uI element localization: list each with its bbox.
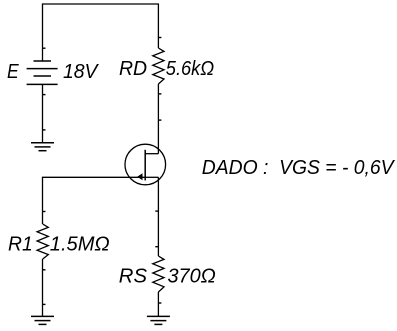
pin end tick (RS bottom / ground 3) [159,302,162,303]
svg-text:RD: RD [119,57,147,80]
pin end tick (ground 2 top) [43,304,46,305]
wire JFET source to RS [157,177,159,256]
label R1 [8,233,33,256]
wire gate to R1 [43,177,146,224]
svg-text:R1: R1 [8,233,33,256]
wire RS to ground [157,292,159,316]
ground (R1) [31,316,54,324]
ground (battery) [31,143,54,151]
transistor Q1 drain lead [145,153,158,155]
label 5.6kOhm [166,57,214,80]
pin end tick (RS top) [155,246,158,247]
pin end tick (R1 bottom) [43,269,46,270]
label DADO : VGS = - 0,6V [202,156,396,179]
label 18V [63,60,100,83]
ground (RS) [147,316,170,324]
pin end tick (RD top) [159,37,162,38]
pin end tick (battery bottom) [43,94,46,95]
wire RD to JFET drain [157,84,159,154]
resistor RS [153,256,164,292]
resistor RD [153,48,164,84]
label RD [119,57,147,80]
pin end tick (battery top) [43,48,46,49]
pin end tick (JFET source) [155,210,158,211]
svg-text:18V: 18V [63,60,100,83]
resistor R1 [37,224,48,259]
transistor Q1 source lead [145,176,158,178]
label E [7,60,19,83]
svg-text:RS: RS [119,264,148,287]
transistor Q1 gate arrow [137,173,142,180]
label 1.5MOhm [50,233,110,256]
svg-text:370Ω: 370Ω [168,264,216,287]
pin end tick (RD bottom) [159,93,162,94]
svg-text:5.6kΩ: 5.6kΩ [166,57,214,80]
transistor Q1 JFET circle [125,144,166,185]
svg-text:1.5MΩ: 1.5MΩ [50,233,110,256]
svg-text:E: E [7,60,19,83]
wire top rail from battery to RD [43,4,159,61]
svg-text:DADO : VGS = - 0,6V: DADO : VGS = - 0,6V [202,156,396,179]
label RS [119,264,148,287]
label 370Ohm [168,264,216,287]
transistor Q1 channel bar [144,150,146,181]
battery E [27,61,58,84]
wire battery to ground [42,84,44,142]
pin end tick (JFET drain) [159,119,162,120]
pin end tick (ground 1 top) [43,129,46,130]
wire R1 to ground [42,259,44,316]
pin end tick (R1 top) [43,211,46,212]
